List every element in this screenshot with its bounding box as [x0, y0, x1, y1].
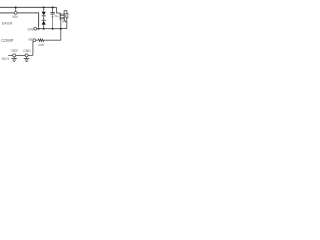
- capacitor C1 plates: [50, 13, 54, 15]
- wire bottom REF/GND row: [8, 54, 13, 56]
- junction dot on top rail at VIN: [15, 6, 17, 8]
- junction dot node row at rail corner: [38, 28, 40, 30]
- wire node row EA/EN to transformer vertical: [37, 28, 61, 30]
- wire between diodes D1 D2: [43, 16, 45, 20]
- svg-text:REF: REF: [12, 49, 19, 53]
- transformer T1 secondary wire: [63, 13, 65, 20]
- diode D2 (cathode up): [42, 20, 46, 25]
- wire lower rail right segment with corner down: [17, 13, 38, 28]
- wire top rail corner down to transformer primary: [57, 7, 60, 13]
- svg-text:R05: R05: [38, 43, 44, 47]
- wire lower rail: [0, 12, 14, 14]
- capacitor C1 polarity mark: [52, 16, 54, 18]
- svg-text:VIN: VIN: [12, 15, 18, 19]
- ground symbol under REF: [12, 59, 17, 62]
- svg-text:Ns: Ns: [62, 19, 66, 23]
- wire right element bottom return: [61, 18, 67, 29]
- svg-text:COMP: COMP: [1, 38, 14, 43]
- wire capacitor bottom to node: [52, 14, 54, 28]
- junction dot on top rail at capacitor branch: [52, 6, 54, 8]
- junction dot node row at diode string: [43, 28, 45, 30]
- wire VIN terminal to top rail: [15, 7, 17, 11]
- wire FB node down to bottom wire: [32, 42, 34, 56]
- svg-text:EA/EN: EA/EN: [2, 22, 13, 26]
- terminal circle VIN: [14, 12, 17, 15]
- wire bottom GND circle to corner: [28, 54, 33, 56]
- resistor R1 zigzag on FB line: [38, 39, 43, 42]
- right element R2 body: [66, 13, 68, 17]
- svg-text:SW: SW: [28, 27, 35, 31]
- svg-text:Np: Np: [55, 14, 59, 18]
- svg-text:FB: FB: [28, 38, 33, 42]
- terminal circle FB pin: [33, 39, 36, 42]
- wire capacitor C1 branch from top rail: [52, 7, 54, 12]
- terminal circle GND pin: [25, 54, 28, 57]
- wire bottom between REF and GND circles: [16, 54, 25, 56]
- wire diode branch from top rail: [43, 7, 45, 11]
- ground symbol under GND: [24, 59, 30, 62]
- wire transformer secondary top to right element: [64, 11, 67, 14]
- svg-text:R101: R101: [2, 57, 10, 61]
- svg-text:GND: GND: [23, 49, 31, 53]
- junction dot node row at capacitor: [52, 28, 54, 30]
- wire REF ground stem: [13, 57, 15, 59]
- wire diode string bottom: [43, 25, 45, 29]
- transformer T1 winding rungs: [60, 14, 64, 19]
- terminal circle REF pin: [13, 54, 16, 57]
- wire GND ground stem: [26, 57, 28, 59]
- transformer T1 primary wire: [59, 13, 61, 20]
- wire main vertical transformer bottom to FB corner: [60, 20, 62, 40]
- wire top rail VIN+: [0, 6, 57, 8]
- wire secondary bottom diagonal: [64, 20, 66, 22]
- wire FB row right to corner up: [44, 39, 61, 41]
- terminal circle EA/EN pin: [34, 27, 37, 30]
- wire FB row left: [36, 39, 39, 41]
- junction dot on top rail at diode branch: [43, 6, 45, 8]
- diode D1 (cathode down): [42, 12, 46, 17]
- junction dot node row at transformer vertical: [60, 28, 62, 30]
